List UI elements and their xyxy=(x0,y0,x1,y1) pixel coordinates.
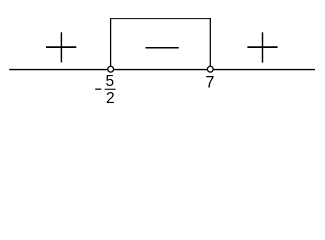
svg-text:5: 5 xyxy=(105,73,114,90)
node minus sign inside box xyxy=(146,47,179,49)
node open circle at -5/2 xyxy=(108,66,114,72)
wire box top xyxy=(110,18,211,20)
svg-text:2: 2 xyxy=(106,90,115,107)
svg-text:7: 7 xyxy=(205,74,214,92)
wire box right side xyxy=(209,18,211,66)
wire box left side xyxy=(110,18,112,66)
wire number line xyxy=(9,69,315,71)
node open circle at 7 xyxy=(207,66,213,72)
node right plus sign xyxy=(247,32,277,62)
node left plus sign xyxy=(46,32,76,62)
label -5/2 xyxy=(95,73,115,107)
